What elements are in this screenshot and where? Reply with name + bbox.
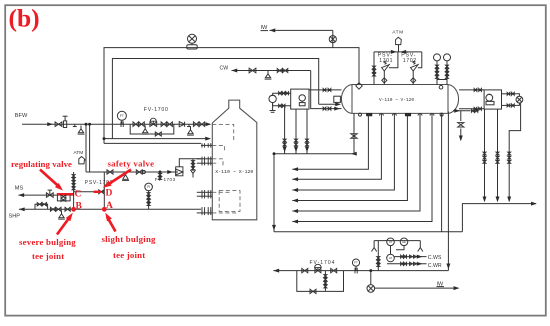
hose column FV-1704 <box>324 271 327 292</box>
red text tee joint 1 <box>32 251 64 261</box>
label ATM left <box>74 150 84 156</box>
wire PSV-1701 outlet <box>389 52 398 68</box>
red text slight bulging <box>102 234 157 244</box>
drum nozzle a1 <box>379 114 383 116</box>
label PSV-1701 <box>378 52 393 64</box>
node CW <box>220 65 229 71</box>
wire riser fan1 <box>283 106 287 154</box>
valve SHP 3 <box>65 207 70 211</box>
svg-text:FV-1703: FV-1703 <box>155 177 176 182</box>
wire safety header <box>86 171 178 173</box>
valve FV-1700 bypass <box>155 132 161 136</box>
figure label (b) <box>9 4 40 33</box>
wire aux line <box>104 142 201 144</box>
wire CW line <box>232 69 311 73</box>
instrument AT1 <box>387 238 395 246</box>
valve pair on CW line <box>277 69 288 73</box>
wire BFW main line <box>22 122 211 126</box>
control valve FV-1704 <box>315 264 322 273</box>
svg-text:(b): (b) <box>9 4 40 33</box>
drum nozzle sq2 <box>405 113 410 115</box>
svg-text:ATM: ATM <box>392 30 403 36</box>
flange SHP nozzle2 <box>197 211 213 215</box>
pump bottom <box>367 285 375 293</box>
instrument LI riser 1 <box>436 61 439 85</box>
dashed internal spray box <box>212 124 233 140</box>
red text severe bulging <box>19 237 76 247</box>
wire fan line 1 <box>292 113 368 171</box>
drum nozzle a2 <box>392 114 396 116</box>
wire regulating bypass <box>57 195 70 201</box>
red dot B <box>71 207 76 212</box>
svg-text:severe bulging: severe bulging <box>19 237 76 247</box>
svg-text:PI: PI <box>147 185 150 189</box>
red node B <box>76 201 83 211</box>
svg-text:C.WR: C.WR <box>428 263 442 269</box>
wire riser fan3 <box>305 109 309 154</box>
reducer circle <box>142 170 145 173</box>
instrument PI <box>145 183 153 191</box>
wire fan line 4 <box>292 113 407 202</box>
valve SHP 2 <box>56 207 61 211</box>
wire box to drum top <box>309 88 342 91</box>
valve SHP bypass b <box>42 203 47 206</box>
flange mid nozzle <box>197 190 213 194</box>
drain valves under junction <box>159 172 162 180</box>
wire SHP line <box>19 207 201 211</box>
label FV-1700 <box>144 107 169 113</box>
gate valve MS <box>46 190 53 197</box>
wire LI crossover <box>437 79 447 81</box>
red arrow to B <box>57 211 75 234</box>
wire box right bottom <box>502 104 517 107</box>
node C.WS <box>428 255 442 261</box>
wire spray line <box>103 137 211 141</box>
wire PSV-1701 inlet <box>382 71 387 85</box>
wire drum right top <box>459 88 484 91</box>
wire sample drop 1 <box>483 109 487 202</box>
wire PSV feed riser 2 <box>89 123 91 172</box>
wire drum blowdown left <box>351 113 357 153</box>
wire cooler drop <box>507 103 520 202</box>
globe valve BFW <box>63 116 68 127</box>
Y strainer right <box>418 241 423 252</box>
red node A <box>106 201 113 211</box>
pump right <box>516 94 523 106</box>
instrument FT bottom <box>352 259 359 266</box>
label X-110 <box>215 169 253 175</box>
valve regulating bypass a <box>61 195 66 198</box>
label PSV-1703 <box>85 180 113 186</box>
drum internal baffle <box>334 96 341 102</box>
drum V-110 body <box>341 85 458 114</box>
control valve FV-1700 <box>150 118 157 126</box>
wire CWS line <box>394 255 426 259</box>
svg-text:FT: FT <box>354 261 358 265</box>
wire AT drop <box>390 246 392 255</box>
red text tee joint 2 <box>113 250 145 260</box>
regulating valve red highlight <box>57 193 74 196</box>
wire fan bottom line <box>274 231 462 233</box>
svg-text:SHP: SHP <box>9 214 21 220</box>
wire sample drop 2 <box>496 109 500 202</box>
svg-text:tee joint: tee joint <box>32 251 64 261</box>
node drain junction <box>370 270 372 272</box>
svg-text:BFW: BFW <box>15 113 28 119</box>
svg-text:FV-1700: FV-1700 <box>144 107 169 113</box>
wire drum right bottom <box>459 107 484 110</box>
instrument LI 2 <box>444 54 451 61</box>
wire fan line 3 <box>292 113 394 192</box>
wire CWR line <box>387 262 427 266</box>
wire PSV-1702 outlet <box>418 52 422 68</box>
strainer SHP <box>58 211 65 220</box>
svg-text:C.WS: C.WS <box>428 255 442 261</box>
node SHP <box>9 214 21 220</box>
wire drum outlet stub <box>453 109 471 113</box>
svg-text:B: B <box>76 201 83 211</box>
svg-text:V-110 ~ V-120: V-110 ~ V-120 <box>379 97 414 103</box>
dashed internal bottom <box>212 212 238 214</box>
svg-text:safety valve: safety valve <box>108 158 155 168</box>
node IW top <box>261 25 269 31</box>
valve pair BFW final <box>193 122 204 127</box>
svg-text:C: C <box>75 190 82 200</box>
wire IW top line <box>270 28 333 32</box>
label ATM top <box>392 30 403 36</box>
vent flag left <box>79 157 85 164</box>
wire AE step <box>396 246 404 250</box>
pump in sample box <box>486 94 494 105</box>
svg-text:slight bulging: slight bulging <box>102 234 157 244</box>
wire riser BC <box>73 172 75 209</box>
drum nozzle c2 <box>440 113 443 116</box>
flange steam nozzle upper2 <box>197 161 213 165</box>
wire into FV-1703 <box>167 170 173 174</box>
wire fan line 6 <box>292 113 432 223</box>
drum nozzle a3 <box>418 114 422 116</box>
valve FV-1704 bypass <box>310 289 316 293</box>
valve pair FV-1700 upstream <box>133 122 144 127</box>
wire PSV header left leg <box>373 52 376 85</box>
svg-text:A: A <box>106 201 113 211</box>
relief valve PSV-1701 <box>382 61 390 71</box>
dashed internal steam lines <box>212 159 223 166</box>
wire inner header to drum <box>319 102 341 106</box>
dashed internal mid box <box>212 191 240 212</box>
gauge in box <box>299 95 305 106</box>
valve BFW isolation <box>55 122 62 127</box>
valve safety header 2 <box>136 170 142 174</box>
wire bottom main line <box>273 269 448 273</box>
flow element FT stem <box>121 120 123 124</box>
node safety junction <box>159 171 161 173</box>
relief valve PSV-1702 <box>411 61 419 71</box>
flange spray nozzle <box>201 143 212 147</box>
svg-text:D: D <box>106 189 113 199</box>
wire pump bottom line <box>273 103 291 108</box>
wire CW downcomer <box>311 71 342 109</box>
svg-text:AT: AT <box>389 240 393 244</box>
node MS <box>15 186 24 192</box>
regulating red highlight 2 <box>94 191 101 193</box>
wire MS line <box>18 193 73 197</box>
label PSV-1702 <box>401 52 417 64</box>
strainer BFW <box>78 126 85 135</box>
instrument AT2 <box>387 254 395 262</box>
orifice bottom <box>355 266 357 273</box>
wire bottom to right riser <box>462 202 536 232</box>
orifice plate <box>121 121 123 127</box>
wire SHP bypass <box>35 204 48 209</box>
svg-text:tee joint: tee joint <box>113 250 145 260</box>
wire PSV feed riser 1 <box>85 123 87 172</box>
instrument LI 1 <box>434 54 441 61</box>
wire fan downleg <box>272 154 276 232</box>
wire header A <box>273 152 357 156</box>
check valve BFW <box>179 122 184 127</box>
svg-text:AE: AE <box>402 240 406 244</box>
valve on CW line <box>249 68 256 73</box>
instrument LI riser 2 <box>446 61 449 85</box>
strainer FV-1700 upstream <box>142 126 149 135</box>
label V-110 <box>379 97 414 103</box>
svg-text:ATM: ATM <box>74 150 84 156</box>
valve FV-1704 downstream <box>331 268 337 272</box>
drum nozzle sq1 <box>367 113 372 115</box>
node BFW <box>15 113 28 119</box>
wire IW bottom line <box>375 286 460 290</box>
valve regulating bypass b <box>61 198 66 201</box>
strainer BFW 2 <box>187 127 194 136</box>
sample box right <box>484 90 501 109</box>
flange steam nozzle upper <box>197 157 213 161</box>
wire drum outlet downcomer <box>446 112 450 271</box>
wire FV-1700 bypass <box>130 124 174 134</box>
wire pump top line <box>273 92 291 96</box>
vessel X-110 body <box>212 100 256 220</box>
wire IW drop <box>332 30 334 47</box>
vent flag top <box>396 37 402 44</box>
wire drain drop <box>370 271 372 285</box>
valve FV-1703 body <box>176 167 183 176</box>
drain valve right <box>458 111 464 141</box>
drum nozzle c1 <box>359 113 362 116</box>
valve FV-1704 upstream <box>302 268 308 272</box>
wire vent stem <box>84 159 86 161</box>
wire sample top header <box>374 240 420 242</box>
valves on CW to drum <box>323 107 340 111</box>
wire riser AD <box>103 172 105 209</box>
label FV-1704 <box>310 260 336 266</box>
wire riser fan2 <box>294 109 298 154</box>
wire outer top header <box>104 48 359 144</box>
node IW bottom <box>437 281 445 287</box>
dashed internal spray line <box>212 145 224 152</box>
valve SHP bypass a <box>37 203 42 206</box>
drum nozzle a4 <box>430 114 434 116</box>
valve pair FV-1700 downstream <box>161 122 172 127</box>
svg-text:regulating valve: regulating valve <box>11 159 72 169</box>
red node D <box>106 189 113 199</box>
flange mid nozzle2 <box>197 194 213 198</box>
Y strainer left <box>372 241 377 252</box>
label FV-1703 <box>155 177 176 182</box>
red node C <box>75 190 82 200</box>
node C.WR <box>428 263 442 269</box>
wire inner top header <box>112 59 318 139</box>
instrument FT <box>117 111 126 120</box>
red dot A <box>102 207 107 212</box>
red arrow to A <box>103 211 116 231</box>
wire FV-1703 discharge <box>179 159 201 167</box>
red text safety valve <box>108 158 155 168</box>
hose PI riser <box>147 191 150 210</box>
wire vent riser <box>398 44 400 52</box>
svg-text:FT: FT <box>120 114 124 118</box>
svg-text:MS: MS <box>15 186 24 192</box>
instrument on top header <box>187 34 197 49</box>
wire box right top <box>502 92 517 95</box>
drum top nozzle right <box>439 85 443 89</box>
pump mid <box>269 95 276 102</box>
hose column to Y <box>190 159 195 178</box>
red text regulating valve <box>11 159 72 169</box>
wire PSV header <box>374 50 422 54</box>
svg-text:AT: AT <box>389 256 393 260</box>
hose column BC <box>72 175 75 190</box>
valve SHP 1 <box>50 207 55 211</box>
svg-text:FV-1704: FV-1704 <box>310 260 336 266</box>
valves drum outlet <box>471 109 477 112</box>
drain tick BFW <box>73 124 77 127</box>
svg-text:X-110 ~ X-120: X-110 ~ X-120 <box>215 169 253 175</box>
drum feed nozzle diamond <box>356 83 363 90</box>
instrument on IW drop <box>329 36 336 43</box>
wire sample riser <box>377 241 380 271</box>
wire C-D line <box>74 191 105 193</box>
pump mid drain <box>270 103 276 113</box>
red arrow to regulating valve <box>40 170 65 193</box>
flange SHP nozzle <box>202 207 211 211</box>
drain tick 2 <box>187 124 191 127</box>
valve safety header 1 <box>107 170 113 174</box>
wire FV-1704 bypass <box>297 271 344 292</box>
wire fan line 2 <box>292 113 381 181</box>
strainer on CW line <box>265 71 272 80</box>
valve near D <box>99 190 104 194</box>
wire PSV-1702 inlet <box>411 71 416 85</box>
wire drum downcomer 7 <box>441 113 443 231</box>
svg-text:CW: CW <box>220 65 229 71</box>
relief valve PSV-1703 <box>122 172 129 180</box>
wire fan line 5 <box>292 113 420 213</box>
instrument AE1 <box>400 238 408 246</box>
gauge box mid <box>291 89 309 109</box>
red arrow to safety valve <box>101 170 131 191</box>
